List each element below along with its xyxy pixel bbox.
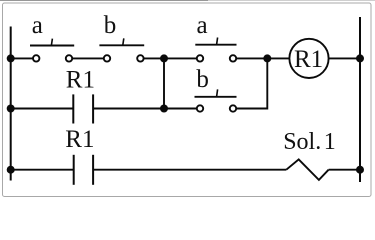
relay contact R1a — [73, 94, 93, 123]
node C junction dot — [160, 105, 168, 113]
wire solenoid to right rail — [329, 169, 360, 171]
junction dot left rail rung1 — [7, 54, 15, 62]
label Sol.1 — [283, 129, 336, 155]
label a2 — [196, 12, 207, 39]
wire a to b — [72, 57, 104, 59]
right rail — [359, 17, 361, 182]
pushbutton contact a (NO) — [30, 39, 74, 62]
pushbutton contact b (NO) — [99, 38, 144, 61]
wire vertical node A down — [163, 58, 165, 108]
wire node B to coil — [267, 57, 290, 59]
svg-text:a: a — [196, 12, 207, 39]
solenoid Sol.1 zigzag — [286, 159, 328, 180]
label a — [32, 12, 43, 39]
svg-text:R1: R1 — [65, 126, 94, 153]
pushbutton contact b2 (NO) — [195, 89, 237, 111]
svg-text:R1: R1 — [66, 67, 95, 94]
svg-text:Sol.1: Sol.1 — [283, 129, 336, 155]
wire a2 to node B — [236, 57, 267, 59]
svg-text:b: b — [104, 12, 117, 39]
node B junction dot — [263, 54, 271, 62]
wire b2 up to node B — [236, 58, 267, 108]
junction dot right rail top — [356, 54, 364, 62]
wire rail to contact R1b — [11, 169, 74, 171]
label b — [104, 12, 117, 39]
wire coil to right rail — [329, 57, 360, 59]
wire rail to contact R1a — [11, 108, 74, 110]
wire b to node A — [144, 57, 164, 59]
pushbutton contact a2 (NO) — [195, 38, 236, 62]
wire node A to contact a2 — [164, 57, 197, 59]
wire rail to contact a — [11, 57, 33, 59]
node A junction dot — [160, 54, 168, 62]
svg-text:b: b — [196, 66, 209, 93]
label R1 rung2 — [66, 67, 95, 94]
wire node C to contact b2 — [164, 108, 197, 110]
junction dot right rail bottom — [356, 166, 364, 174]
relay contact R1b — [74, 155, 93, 185]
relay coil R1 — [289, 39, 328, 78]
label b2 — [196, 66, 209, 93]
left rail — [10, 27, 12, 181]
label R1 rung3 — [65, 126, 94, 153]
wire R1b to solenoid — [93, 169, 286, 171]
junction dot left rail rung2 — [7, 105, 15, 113]
junction dot left rail rung3 — [7, 166, 15, 174]
svg-text:a: a — [32, 12, 43, 39]
wire R1a to node C — [93, 108, 164, 110]
svg-text:R1: R1 — [294, 46, 323, 73]
